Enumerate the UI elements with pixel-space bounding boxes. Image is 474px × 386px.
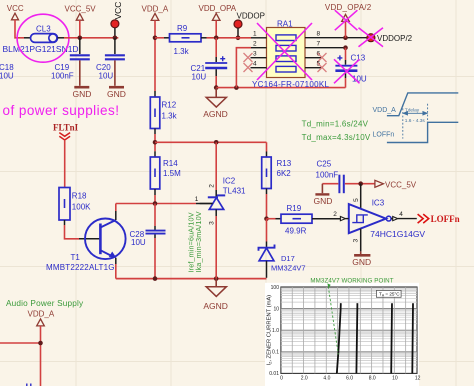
wire R18 to T1 base [64,220,66,225]
resistor R18 [59,188,91,221]
shunt regulator IC2 TL431 [195,142,246,225]
svg-text:of power supplies!: of power supplies! [3,103,120,118]
svg-text:1.0: 1.0 [272,328,279,334]
svg-text:C25: C25 [317,160,332,169]
junction VDDOP bus [236,36,241,41]
power port VCC_5V [65,5,97,21]
resistor R14 [150,151,181,189]
power port VDD_A (bottom) [28,309,55,326]
IC3 output wire pin 4 [391,218,393,220]
magenta cross over RA1 [257,23,312,80]
svg-text:VCC_5V: VCC_5V [65,5,97,14]
svg-text:Audio Power Supply: Audio Power Supply [6,299,84,308]
svg-text:FLTnI: FLTnI [53,123,79,133]
svg-text:IC3: IC3 [372,198,385,207]
svg-text:10U: 10U [192,73,207,82]
svg-text:MMBT2222ALT1G: MMBT2222ALT1G [46,263,115,272]
junction IC2 cathode [214,140,219,145]
schmitt inverter IC3 74HC1G14GV [349,198,426,239]
svg-text:R9: R9 [177,24,188,33]
graph zener curve 3 [390,303,393,373]
ground AGND bottom [203,279,228,311]
junction RA1 pin2 riser [234,85,239,90]
svg-text:VCC_5V: VCC_5V [385,180,417,189]
svg-text:10U: 10U [131,238,146,247]
timing diagram dashed markers [403,104,428,139]
svg-text:LOFFn: LOFFn [431,214,460,224]
junction VDD_OPA bus [214,36,219,41]
svg-text:VDD_OPA: VDD_OPA [199,4,237,13]
svg-text:Td_max=4.3s/10V: Td_max=4.3s/10V [302,133,371,142]
svg-text:100K: 100K [72,203,91,212]
svg-text:VCC: VCC [113,2,123,20]
port LOFFn [418,214,460,224]
graph zener curve 4V7 [337,303,341,373]
svg-text:1.3k: 1.3k [162,112,178,121]
svg-text:R14: R14 [163,159,178,168]
svg-text:5: 5 [353,198,360,202]
ground GND under C19 [73,60,92,98]
resistor R19 [267,204,313,236]
svg-text:3: 3 [253,51,257,58]
junction IC3 pin5 / VCC_5V [358,181,363,186]
wire C21 top [215,38,217,57]
RA1 pin 6 (no connect) [305,57,321,59]
wire C21 bottom [215,69,217,76]
wire R14 bottom [154,189,156,195]
svg-text:VCC: VCC [7,4,24,13]
svg-text:IC2: IC2 [223,177,236,186]
svg-text:1: 1 [195,196,199,203]
svg-text:12: 12 [415,376,421,382]
svg-text:100nF: 100nF [316,171,339,180]
resistor array RA1 [252,20,330,89]
wire IC3 pin 5 [360,184,362,209]
RA1 pin 2 [251,47,267,49]
capacitor C18 label (cap off-frame) [0,63,14,81]
svg-text:MM3Z4V7: MM3Z4V7 [271,264,306,273]
svg-text:74HC1G14GV: 74HC1G14GV [370,229,425,239]
timing diagram VDD_A trace [387,93,458,143]
junction VCC dot bus [113,36,118,41]
resistor R13 [262,157,292,189]
junction pin8 / VDD_OPA2 [343,35,348,40]
graph log minor gridlines [281,288,417,367]
svg-text:TL431: TL431 [223,187,246,196]
wire VDD_OPA drop [215,20,217,37]
junction C28 bottom [153,276,158,281]
junction IC2 anode / AGND [214,276,219,281]
RA1 pin 4 (no connect) [251,67,267,69]
svg-text:0.01: 0.01 [269,371,279,377]
svg-text:49.9R: 49.9R [285,227,307,236]
svg-text:2: 2 [333,211,337,218]
ground GND under C20 [107,60,126,98]
svg-text:100nF: 100nF [51,72,74,81]
port FLTnI [53,123,79,141]
junction R12/R14 node [153,140,158,145]
RA1 pin 5 (no connect) [305,67,321,69]
capacitor C21 (polarized) [191,56,228,81]
capacitor C19 [51,38,90,81]
wire bottom bus (emitter to D17) [116,278,267,280]
wire VCC to bead CL3 [15,20,24,38]
wire C25 right to VCC_5V [345,183,375,185]
capacitor C20 [96,38,125,81]
RA1 pin 7 [305,47,346,49]
zener diode D17 MM3Z4V7 [259,219,306,278]
wire FLTnI to R18 [64,140,66,187]
svg-text:Tdelay: Tdelay [405,108,420,114]
graph plot frame [281,287,417,373]
power port VCC_5V (right) [375,180,417,189]
wire R9 right to VDD_OPA [201,37,207,39]
ground AGND under C21 [203,88,228,120]
wire VCC_5V drop [79,20,81,38]
svg-text:0: 0 [280,376,283,382]
wire VDD_A drop to R12 [154,20,156,91]
timing diagram LOFFn trace [387,122,458,142]
svg-text:GND: GND [73,89,92,99]
resistor R12 [150,97,177,129]
wire R19 to IC3 input [312,218,340,220]
RA1 pin 3 (no connect) [251,57,267,59]
IC3 input port arrow pin 2 [340,217,345,221]
wire T1 collector riser [115,211,117,220]
svg-text:AGND: AGND [203,301,228,311]
svg-text:10: 10 [273,306,279,312]
wire IC2 anode [215,209,217,216]
svg-text:2: 2 [253,41,257,48]
working point arrow (green dashed) [327,283,338,354]
junction bottom-left [38,341,43,346]
svg-text:VDD_A: VDD_A [28,309,55,318]
svg-text:6.0: 6.0 [346,376,353,382]
svg-text:T1: T1 [71,253,81,262]
capacitor C13 (polarized, crossed out) [334,48,367,88]
power port VDD_OPA [199,4,237,20]
capacitor C28 [130,204,166,279]
power node VCC (red dot) [111,2,123,38]
svg-text:YC164-FR-07100KL: YC164-FR-07100KL [252,80,330,89]
svg-text:10U: 10U [0,72,14,81]
svg-text:3: 3 [209,221,216,225]
svg-text:R12: R12 [162,101,177,110]
svg-text:VDD_A: VDD_A [373,107,397,114]
junction pin7 / C13 [343,45,348,50]
wire VDDOP to RA1 pin1 [234,37,251,39]
wire bottom-left horizontal [0,342,41,344]
power node VDDOP/2 (red dot, crossed out) [359,28,413,47]
svg-text:MM3Z4V7 WORKING POINT: MM3Z4V7 WORKING POINT [310,278,393,285]
power node VDDOP (red dot) [234,11,265,38]
wire IC3 pin 3 to GND [360,229,362,252]
svg-text:GND: GND [107,89,126,99]
svg-text:CL3: CL3 [36,25,51,34]
graph vertical gridlines [292,287,405,373]
wire node A corner to R13 [266,142,268,151]
svg-text:IZ, ZENER CURRENT (mA): IZ, ZENER CURRENT (mA) [266,295,272,366]
svg-text:4: 4 [399,211,403,218]
svg-text:VDD_A: VDD_A [142,5,169,14]
power port VDD_OPA/2 (crossed out) [325,3,372,38]
power port VDD_A [142,5,169,21]
svg-text:VDDOP: VDDOP [237,11,265,20]
junction R14/C28 [153,201,158,206]
svg-text:100: 100 [271,285,280,291]
svg-text:Ika_min=3mA/10V: Ika_min=3mA/10V [194,211,203,272]
svg-text:3: 3 [353,239,360,243]
magenta highlight circle around CL3 [17,14,69,62]
ferrite bead CL3 [3,25,79,54]
wire node A horizontal [155,141,267,143]
power port VCC [7,4,24,20]
wire RA1 pin2 riser [236,48,251,88]
svg-text:8: 8 [317,30,321,37]
svg-text:GND: GND [352,257,371,267]
svg-text:1: 1 [253,30,257,37]
wire R13 bottom to node B [266,189,268,195]
graph Ta=25C box [376,290,401,297]
transistor T1 (NPN) [46,219,126,272]
svg-text:4: 4 [253,61,257,68]
svg-text:VDD_OPA/2: VDD_OPA/2 [325,3,372,12]
svg-text:0.1: 0.1 [272,350,279,356]
cut-off text at bottom edge [27,384,31,386]
ground GND at C25 [314,184,333,206]
RA1 pin 8 [305,37,367,39]
junction C21/AGND bus [214,85,219,90]
svg-text:2: 2 [209,184,216,188]
svg-text:VDDOP/2: VDDOP/2 [377,34,413,43]
svg-text:R18: R18 [72,192,87,201]
svg-text:R13: R13 [277,159,292,168]
graph white panel [265,283,419,386]
svg-text:10: 10 [392,376,398,382]
svg-text:R19: R19 [287,204,302,213]
svg-text:Td_min=1.6s/24V: Td_min=1.6s/24V [302,119,369,128]
svg-text:10U: 10U [99,72,114,81]
graph major gridlines [281,309,417,352]
svg-text:2.0: 2.0 [301,376,308,382]
resistor R9 [170,24,202,56]
wire bead to VCC node [58,37,65,39]
capacitor C25 [316,160,344,194]
wire node (collector/R14/C28/IC2 ref) horizontal [116,203,196,205]
svg-text:LOFFn: LOFFn [373,132,395,139]
ground GND under IC3 [352,251,371,267]
svg-text:TA = 25°C: TA = 25°C [379,292,400,298]
svg-text:GND: GND [314,196,333,206]
wire ground bus (C21 to C13 bottom) [216,87,345,89]
junction VCC_5V bus [78,36,83,41]
svg-text:RA1: RA1 [277,20,293,29]
graph zener curve 4 [411,303,414,373]
junction node B (R13/D17/R19) [264,216,269,221]
wire R12 bottom to node [154,129,156,135]
junction VDD_A / R9 [153,36,158,41]
wire T1 emitter drop [115,258,117,264]
svg-text:7: 7 [317,41,321,48]
svg-text:1.5M: 1.5M [163,169,181,178]
wire R9 left [155,37,164,39]
RA1 pin 1 [251,37,267,39]
wire VDD_A bottom drop [40,326,42,386]
timing diagram Tdelay arrow [403,112,427,115]
wire C25 left to GND [322,183,338,185]
svg-text:AGND: AGND [203,109,228,119]
svg-text:1.6 - 4.3s: 1.6 - 4.3s [405,118,426,124]
svg-text:4.0: 4.0 [323,376,330,382]
svg-text:D17: D17 [281,254,295,263]
svg-text:8.0: 8.0 [369,376,376,382]
svg-text:1.3k: 1.3k [174,47,190,56]
graph zener curve 2 [356,303,357,373]
svg-text:6K2: 6K2 [277,169,292,178]
